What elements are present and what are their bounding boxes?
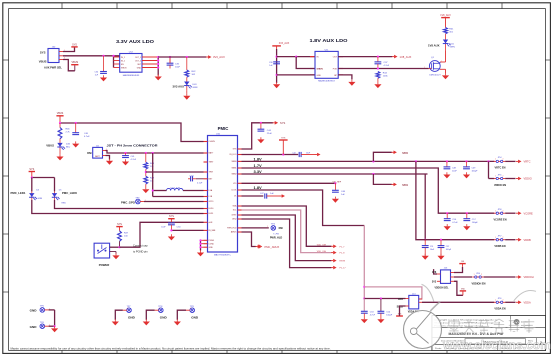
svg-text:DNI: DNI — [87, 152, 92, 155]
svg-text:PMC_GPO: PMC_GPO — [121, 200, 136, 204]
LED D49 PMC_LED1 — [11, 190, 43, 200]
wire J11 to BATT pin — [106, 151, 204, 155]
svg-text:MAX8510EXK18: MAX8510EXK18 — [318, 79, 335, 82]
wire SYS pin to arrow — [242, 122, 273, 149]
svg-text:100pF: 100pF — [472, 170, 479, 172]
wire LDO1 1.8V net — [242, 190, 366, 300]
ground below C57 — [463, 224, 470, 230]
svg-text:C51: C51 — [430, 246, 433, 248]
svg-text:GRN: GRN — [38, 198, 43, 200]
regulator U12 3.3V LDO MAX8869 — [120, 52, 142, 77]
watermark veil — [432, 316, 546, 351]
ground below C53 — [361, 313, 368, 323]
svg-text:VCORE EN: VCORE EN — [493, 219, 506, 222]
wire PGND bus — [199, 239, 203, 250]
svg-text:VBUS: VBUS — [39, 59, 47, 63]
svg-text:VIO_REF: VIO_REF — [333, 181, 342, 183]
document number row — [441, 339, 543, 346]
LED D45 blue VBUS — [46, 139, 71, 152]
wire bus to U11 pin3 — [277, 74, 315, 76]
ground below R49 — [142, 184, 149, 193]
svg-text:PGND: PGND — [209, 240, 215, 242]
svg-text:PWR_HLD: PWR_HLD — [270, 237, 283, 240]
svg-text:GND: GND — [160, 315, 168, 319]
svg-text:www.elecfans.com: www.elecfans.com — [442, 338, 551, 352]
svg-text:POWER: POWER — [99, 263, 110, 267]
svg-text:1uF: 1uF — [270, 193, 274, 195]
svg-text:IN_1: IN_1 — [121, 57, 125, 59]
svg-text:VDDB EN: VDDB EN — [494, 245, 505, 248]
ground below C40 — [72, 141, 79, 147]
svg-text:VCORE: VCORE — [524, 211, 533, 215]
wire SBB2 3.3V rail — [242, 173, 428, 175]
power flag 3V3_AUX input — [272, 42, 289, 49]
svg-text:10uF: 10uF — [452, 170, 457, 172]
svg-text:4.7uF: 4.7uF — [452, 222, 458, 224]
ground stub below C50 — [168, 234, 175, 240]
svg-text:Maxim cannot assume responsibi: Maxim cannot assume responsibility for u… — [11, 346, 331, 350]
maxim logo — [514, 319, 532, 327]
power flag at VDDA SBB pin — [396, 306, 405, 316]
wire SDA net — [242, 206, 332, 246]
svg-text:JP56: JP56 — [476, 273, 480, 275]
capacitor C50 10uF — [161, 223, 181, 231]
capacitor C44 22uF — [258, 123, 273, 135]
svg-text:LGND: LGND — [209, 243, 215, 245]
svg-text:C52: C52 — [446, 246, 449, 248]
svg-text:1: 1 — [159, 308, 160, 310]
resistor R46 2.7k — [58, 123, 70, 139]
svg-text:100pF: 100pF — [472, 222, 479, 224]
watermark magnifier circle — [404, 284, 442, 348]
net arrow SCL P1_8 — [317, 251, 345, 255]
svg-text:JST - PH 2mm CONNECTOR: JST - PH 2mm CONNECTOR — [107, 144, 158, 148]
svg-text:GND: GND — [317, 75, 322, 77]
power flag 1V8_AUX at LED chain — [440, 14, 451, 28]
section title 3.3V AUX LDO — [116, 39, 155, 44]
testpoint TP4 PWR_HLD — [270, 224, 283, 240]
svg-text:0.1uF: 0.1uF — [197, 182, 203, 184]
capacitor C41 4.7uF — [122, 153, 137, 161]
svg-text:VDDIOH: VDDIOH — [524, 275, 534, 279]
connector J13 VDDIOH SEL — [432, 268, 454, 290]
capacitor C52 100pF — [438, 240, 452, 256]
svg-text:nIRQ: nIRQ — [232, 219, 237, 221]
svg-text:GRN: GRN — [450, 47, 455, 49]
wire J13 to JP56 — [454, 276, 472, 278]
ground below C46 — [332, 197, 339, 203]
svg-text:PMC_LED1: PMC_LED1 — [11, 191, 26, 195]
svg-text:SBB1: SBB1 — [232, 168, 237, 170]
svg-text:JP55: JP55 — [498, 174, 502, 176]
testpoint TP3 PMC_GPO — [121, 197, 204, 204]
svg-text:IN_2: IN_2 — [121, 61, 125, 63]
svg-text:SYS: SYS — [72, 43, 77, 46]
svg-text:VBUS: VBUS — [72, 61, 79, 64]
ground below TP9 — [174, 319, 181, 325]
svg-text:3V3: 3V3 — [432, 281, 437, 284]
power flag VBUS above LED chain — [56, 112, 63, 123]
ground below D43 — [183, 91, 190, 100]
wire VL row — [242, 195, 264, 197]
wire U11 POK rail — [338, 67, 429, 69]
svg-text:VDDB: VDDB — [524, 238, 531, 242]
capacitor C49 100pF — [463, 161, 478, 172]
svg-text:LED0: LED0 — [209, 208, 214, 210]
svg-text:LDO1: LDO1 — [231, 190, 236, 192]
node THM junction — [145, 169, 147, 176]
transistor Q1 DMG1012T — [424, 57, 442, 77]
svg-text:TBST: TBST — [209, 162, 215, 164]
ground below C44 — [257, 137, 264, 143]
testpoint TP6 GND — [30, 322, 55, 329]
svg-text:4.7uF: 4.7uF — [384, 65, 390, 67]
svg-text:VBUS: VBUS — [46, 143, 54, 147]
resistor R48 10k — [144, 153, 155, 169]
svg-text:SHDN: SHDN — [317, 69, 324, 71]
LED D43 green 3V3 AUX — [172, 77, 197, 91]
wire VRTC to VDDIO feed — [489, 161, 495, 178]
capacitor C57 100pF — [463, 213, 478, 224]
capacitor C34 1uF — [95, 56, 107, 77]
wire THM row — [146, 171, 204, 173]
resistor R47 100 — [118, 231, 129, 242]
svg-text:JP57: JP57 — [498, 236, 502, 238]
svg-text:PMC_AMUX: PMC_AMUX — [265, 245, 280, 249]
wire IN_LDO row — [242, 153, 299, 155]
svg-text:IN_LDO: IN_LDO — [230, 154, 237, 156]
svg-text:THM: THM — [209, 172, 214, 174]
wire J50 pin2 to LDO input — [63, 55, 120, 57]
date row — [435, 347, 520, 350]
svg-text:JP58: JP58 — [498, 209, 502, 211]
ground below U12 output bus — [155, 74, 162, 80]
svg-text:C34: C34 — [95, 72, 98, 74]
svg-text:1V8 AUX: 1V8 AUX — [428, 44, 440, 48]
svg-text:MAX77650EWV+: MAX77650EWV+ — [214, 254, 232, 257]
svg-text:C42: C42 — [292, 153, 295, 155]
connector J14 VDDA SEL — [397, 294, 422, 314]
svg-text:SYS: SYS — [169, 215, 174, 218]
wire SBB2 branch arrow — [373, 174, 391, 184]
ground below TP6 — [51, 326, 58, 332]
svg-text:AMUX: AMUX — [231, 231, 237, 234]
wire SBB0 branch arrow — [373, 152, 391, 161]
net arrow SDA P1_7 — [317, 245, 345, 249]
svg-text:MAX8869EUE33: MAX8869EUE33 — [123, 74, 140, 77]
wire SBB0 1.8V rail — [242, 160, 495, 162]
svg-text:1V8: 1V8 — [461, 261, 464, 263]
watermark elecfans text — [442, 338, 551, 352]
connector J50 AUX PWR SEL — [39, 47, 65, 70]
watermark arc right — [514, 290, 536, 300]
wire nRST net — [242, 215, 332, 261]
LED D41 green 1V8 AUX — [428, 34, 455, 50]
testpoint TP7 GND — [115, 306, 135, 320]
svg-text:1: 1 — [495, 300, 496, 302]
power flag SYS at J50 pin1 — [63, 43, 78, 51]
svg-text:PMIC: PMIC — [218, 126, 229, 131]
wire Q1 source to ground — [440, 69, 446, 73]
svg-text:1uF: 1uF — [341, 194, 345, 196]
svg-text:4.7uF: 4.7uF — [131, 159, 137, 161]
wire J50 pin3 to VBUS flag — [63, 60, 75, 71]
ground below J11 — [106, 159, 113, 165]
svg-text:PWR_HLD: PWR_HLD — [227, 228, 237, 230]
wire button to ground — [110, 252, 116, 254]
net arrow P1_17 — [331, 266, 346, 270]
ground below C52 — [437, 254, 444, 260]
svg-text:SBB2: SBB2 — [402, 184, 409, 187]
disclaimer text line — [11, 346, 331, 350]
svg-text:P1_7: P1_7 — [340, 246, 346, 248]
push button POWER — [94, 243, 110, 267]
svg-text:22uF: 22uF — [267, 133, 273, 135]
svg-text:1: 1 — [474, 274, 475, 276]
jumper JP57 VDDB — [494, 236, 531, 249]
wire D49 to LED1 pin — [32, 200, 204, 214]
svg-text:VDDIO EN: VDDIO EN — [494, 184, 506, 187]
svg-text:DNI: DNI — [279, 227, 283, 230]
IC U10 PMIC MAX77650 — [204, 133, 242, 256]
svg-text:SYS: SYS — [280, 121, 285, 125]
ground below button — [112, 253, 119, 259]
ground below C56 — [444, 224, 451, 230]
power flag SYS above LEDs — [29, 168, 35, 178]
title block copyright text — [434, 319, 500, 328]
resistor R44 100k — [376, 72, 388, 79]
svg-text:RED: RED — [62, 202, 67, 204]
svg-text:OUT_2: OUT_2 — [135, 61, 141, 63]
wire PWR_HLD to TP4 — [242, 226, 269, 228]
svg-text:DMG1012T: DMG1012T — [429, 74, 441, 76]
ground below Q1 — [442, 73, 449, 79]
svg-text:nRST: nRST — [232, 215, 238, 217]
power flag VBUS — [71, 61, 78, 71]
wire 3.3V vertical to VDDB row — [424, 174, 426, 241]
wire D41 to Q1 drain — [440, 50, 446, 62]
net arrow SBB2 — [391, 183, 408, 187]
svg-text:VDD_IOH: VDD_IOH — [317, 245, 327, 247]
node R42 tap — [186, 56, 188, 58]
jumper JP56 VDDIOH — [472, 273, 534, 286]
svg-text:GND: GND — [137, 68, 142, 70]
ground below PGND bus — [197, 250, 204, 256]
wire J11 pin2 to ground — [106, 156, 110, 160]
svg-text:VDDIO: VDDIO — [524, 177, 532, 181]
connector J11 battery — [87, 146, 107, 158]
wire AMUX to arrow — [242, 232, 256, 247]
svg-text:1: 1 — [495, 176, 496, 178]
svg-text:C47: C47 — [260, 193, 263, 195]
svg-text:to PGND pin: to PGND pin — [133, 250, 148, 254]
wire U11 BP to ground — [338, 75, 352, 80]
net label 1.8V LDO1 — [254, 185, 263, 190]
svg-text:100pF: 100pF — [386, 315, 393, 317]
label JST - PH 2mm CONNECTOR — [107, 144, 158, 148]
jumper JP54 VRTC — [494, 157, 531, 170]
svg-text:CHGIN: CHGIN — [209, 141, 216, 143]
svg-text:JP59: JP59 — [498, 298, 502, 300]
svg-text:1V8_AUX: 1V8_AUX — [400, 55, 412, 59]
wire LDO1 pink to VDDA SEL pin — [364, 287, 422, 299]
ground below TP7 — [112, 319, 119, 325]
svg-text:VDD_IOH: VDD_IOH — [317, 251, 327, 253]
svg-text:VDDIOH SEL: VDDIOH SEL — [434, 288, 449, 290]
testpoint TP8 GND — [146, 306, 167, 320]
ground below C49 — [463, 172, 470, 178]
resistor R41 301 — [444, 28, 454, 34]
testpoint TP9 GND — [177, 306, 199, 320]
jumper JP59 VDDA — [494, 298, 531, 311]
svg-text:1V8_AUX: 1V8_AUX — [440, 14, 451, 17]
capacitor C54 100pF — [378, 299, 393, 317]
jumper JP55 VDDIO — [494, 174, 532, 187]
svg-text:SBB2: SBB2 — [232, 174, 237, 176]
capacitor C37 4.7uF — [375, 57, 390, 68]
svg-text:PMC_LED0: PMC_LED0 — [62, 191, 77, 195]
svg-text:BATT: BATT — [209, 152, 215, 155]
wire LXB loop — [152, 153, 204, 197]
svg-text:4.7uF: 4.7uF — [84, 136, 90, 138]
note connect cap — [133, 244, 148, 254]
svg-text:GND: GND — [128, 315, 136, 319]
ground below BP — [348, 80, 355, 86]
svg-text:VRTC EN: VRTC EN — [495, 167, 506, 170]
wire VDDA row to JP59 — [422, 301, 494, 303]
svg-text:Connect cap: Connect cap — [133, 244, 148, 248]
wire D50 to LED0 pin — [55, 200, 204, 209]
ground below D45 — [56, 152, 63, 160]
capacitor C40 4.7uF — [72, 123, 90, 138]
wire TP5/TP6 join — [54, 310, 56, 327]
svg-text:10uF: 10uF — [175, 66, 181, 68]
section title 1.8V AUX LDO — [310, 38, 349, 43]
title block frame — [432, 316, 546, 351]
net label VIO_REF — [333, 181, 342, 183]
net arrow after C47 — [280, 194, 286, 198]
capacitor C47 1uF — [260, 193, 280, 198]
capacitor C56 4.7uF — [444, 213, 459, 224]
svg-text:GPIO: GPIO — [209, 201, 214, 203]
ground below C41 — [122, 159, 129, 165]
svg-text:nEN: nEN — [209, 222, 213, 224]
svg-text:LED1: LED1 — [209, 213, 214, 215]
svg-text:1.8V AUX LDO: 1.8V AUX LDO — [310, 38, 349, 43]
svg-text:BATT: BATT — [95, 155, 101, 158]
title text MAX32650 EV Kit — [449, 332, 505, 336]
regulator U11 1.8V LDO MAX8510 — [315, 50, 338, 83]
svg-text:JP54: JP54 — [498, 157, 502, 159]
net label 1.7V SBB1 — [254, 163, 263, 168]
svg-text:IN_SBB: IN_SBB — [209, 230, 216, 232]
svg-text:3V3_AUX: 3V3_AUX — [279, 42, 290, 45]
svg-text:T_PB: T_PB — [273, 234, 279, 236]
capacitor C46 1uF — [332, 183, 346, 196]
svg-text:LDO: LDO — [398, 298, 403, 301]
capacitor C53 4.7uF — [361, 299, 376, 317]
net label 1.8V SBB0 — [254, 157, 263, 162]
svg-text:3V3 AUX: 3V3 AUX — [172, 84, 184, 88]
node C34 tap — [102, 55, 104, 57]
LED D50 PMC_LED0 — [52, 190, 78, 205]
capacitor C43 0.1uF at BST — [188, 175, 204, 184]
wire VBUS rail to CHGIN — [59, 122, 204, 142]
jumper JP58 VCORE — [493, 209, 533, 222]
capacitor C48 10uF — [444, 161, 458, 172]
ground below C51 — [422, 254, 429, 260]
ground below C34 — [100, 75, 107, 81]
inductor L10 1.5uH — [153, 187, 204, 190]
svg-text:1: 1 — [495, 159, 496, 161]
power flag SYS above R47 — [116, 223, 122, 231]
wire VIO row — [242, 182, 337, 184]
svg-text:SYS: SYS — [29, 168, 34, 171]
svg-text:1: 1 — [495, 210, 496, 212]
wire input to U11 IN — [277, 56, 343, 75]
svg-text:1V8: 1V8 — [432, 271, 437, 274]
capacitor C42 10uF — [292, 152, 315, 157]
wire stub to VDDIOH pin1 — [434, 269, 437, 274]
wire IN to SHDN jog — [296, 57, 315, 69]
power flag SYS at IN_LDO — [279, 138, 288, 155]
net arrow 3V3_AUX — [206, 55, 225, 59]
svg-text:SHDN: SHDN — [121, 68, 127, 70]
svg-text:VL: VL — [234, 196, 236, 198]
net arrow 1V8_AUX — [392, 55, 412, 59]
wire LED feed — [31, 176, 55, 191]
svg-text:VDDA: VDDA — [524, 301, 531, 305]
svg-text:GND: GND — [30, 309, 38, 313]
wire button to nEN — [110, 222, 204, 248]
svg-text:GND: GND — [30, 325, 38, 329]
svg-text:P1_8: P1_8 — [340, 253, 346, 255]
wire LDO1 to VDDA LDO pin — [364, 297, 405, 299]
svg-text:SCL: SCL — [233, 210, 237, 212]
svg-text:SBB0: SBB0 — [402, 152, 409, 155]
net arrow SYS — [273, 121, 286, 125]
power flag GND at J13 pin3 — [454, 281, 466, 295]
ground below input bus — [273, 82, 280, 88]
wire VDDB rail — [416, 161, 494, 240]
net arrow PMC_AMUX — [256, 245, 280, 249]
net label 3.3V SBB2 — [254, 169, 263, 174]
svg-text:C36: C36 — [269, 62, 272, 64]
resistor R42 302 — [185, 57, 196, 77]
section title PMIC — [218, 126, 229, 131]
svg-text:3.3V AUX LDO: 3.3V AUX LDO — [116, 39, 155, 44]
wire SBB1 1.7V rail — [242, 168, 495, 214]
svg-text:GRN: GRN — [193, 87, 198, 89]
resistor R49 10k — [144, 176, 155, 184]
wire nIRQ net — [242, 219, 332, 268]
svg-text:1: 1 — [495, 237, 496, 239]
svg-text:VRTC: VRTC — [524, 160, 531, 164]
U12 right pin wires to output bus — [142, 56, 159, 76]
svg-text:AUX PWR SEL: AUX PWR SEL — [44, 66, 62, 70]
svg-text:GND: GND — [461, 288, 466, 290]
svg-text:3V3_AUX: 3V3_AUX — [213, 55, 225, 59]
svg-text:VDDA EN: VDDA EN — [494, 308, 505, 311]
svg-text:OUT_1: OUT_1 — [135, 57, 141, 59]
input bus of U11 — [276, 49, 278, 83]
ground below C48 — [443, 172, 450, 178]
capacitor C51 10uF — [422, 240, 435, 256]
ground below R44 — [374, 78, 381, 88]
capacitor C36 1uF — [269, 62, 280, 67]
wire 3.3V output rail — [158, 56, 206, 58]
svg-text:POK: POK — [333, 69, 338, 71]
